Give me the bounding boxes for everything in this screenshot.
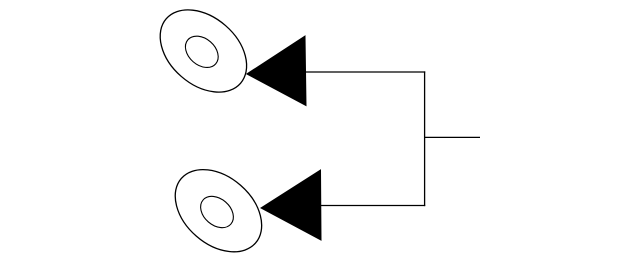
wire: output stub [425, 136, 480, 138]
speaker LS1 (top) outer ellipse [144, 0, 262, 109]
wire: vertical bus [424, 71, 426, 206]
speaker LS2 (bottom) inner magnet ellipse [194, 190, 239, 234]
speaker LS1 (top) cone triangle [247, 36, 306, 106]
wire: bottom speaker to bus [321, 205, 426, 207]
speaker LS2 (bottom) cone triangle [261, 170, 321, 240]
speaker LS1 (top) inner magnet ellipse [179, 30, 224, 74]
speaker LS2 (bottom) outer ellipse [159, 153, 277, 263]
wire: top speaker to bus [306, 71, 426, 73]
